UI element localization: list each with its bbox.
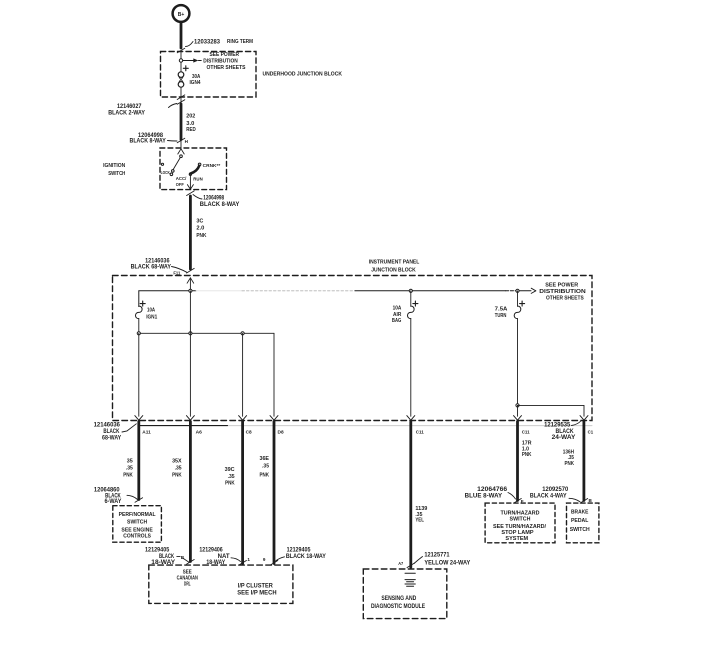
wire to A11	[138, 333, 140, 416]
connector 12064860 tick	[135, 498, 143, 503]
svg-text:SEE I/P MECH: SEE I/P MECH	[237, 590, 276, 596]
svg-text:SWITCH: SWITCH	[510, 517, 531, 523]
svg-text:2.0: 2.0	[196, 226, 204, 232]
wire 39C .35 PNK to cluster	[241, 422, 244, 564]
svg-text:A11: A11	[142, 430, 151, 435]
wire to D8	[273, 333, 275, 416]
connector 12064998 tick below switch	[187, 191, 195, 196]
svg-text:NAT: NAT	[218, 554, 230, 560]
wire 35 .35 PNK to perf/normal switch	[137, 422, 140, 500]
junction node F11/bus	[189, 289, 192, 292]
svg-text:PNK: PNK	[565, 461, 575, 467]
svg-text:68-WAY: 68-WAY	[102, 435, 121, 441]
svg-text:7.5A: 7.5A	[495, 306, 508, 312]
svg-text:35X: 35X	[172, 458, 182, 464]
wire 136H .35 PNK to brake pedal switch	[583, 422, 586, 501]
leader to ring term label	[186, 42, 194, 47]
junction node turn branch	[516, 289, 519, 292]
fuse 10A IGN1	[140, 303, 145, 305]
svg-text:.35: .35	[228, 474, 235, 480]
leader to 12129406 label	[231, 558, 241, 562]
svg-text:C11: C11	[522, 430, 530, 435]
connector 12064998 tick at pin H	[177, 138, 185, 143]
contact RUN	[189, 173, 191, 175]
connector 12146036 tick at F11	[187, 268, 195, 273]
leader to 12146027 label	[169, 104, 177, 108]
fuse 10A AIR BAG	[410, 291, 412, 306]
svg-text:BLACK: BLACK	[159, 554, 175, 560]
svg-text:12129535: 12129535	[544, 423, 571, 429]
svg-text:TURN/HAZARD: TURN/HAZARD	[500, 510, 539, 516]
svg-text:IGN4: IGN4	[190, 80, 201, 86]
svg-text:BLACK: BLACK	[556, 429, 575, 435]
svg-text:12129405: 12129405	[287, 548, 311, 554]
tick at box bottom	[177, 95, 185, 100]
svg-text:12125771: 12125771	[424, 552, 450, 558]
I/P cluster box	[149, 565, 293, 603]
svg-text:C11: C11	[416, 430, 424, 435]
wire 202 3.0 RED	[180, 104, 183, 140]
svg-text:A7: A7	[398, 561, 403, 566]
wire node to fuse 30A	[180, 62, 182, 71]
svg-text:12146027: 12146027	[117, 104, 142, 110]
turn/hazard switch box	[485, 503, 555, 543]
leader to 12064998 label	[168, 140, 178, 143]
svg-text:1: 1	[247, 557, 250, 562]
svg-text:PNK: PNK	[196, 233, 206, 239]
connector 12092570 tick	[580, 499, 588, 504]
svg-text:DISTRIBUTION: DISTRIBUTION	[203, 59, 238, 65]
svg-text:BRAKE: BRAKE	[571, 510, 589, 516]
underhood junction block	[161, 52, 257, 98]
svg-text:C8: C8	[246, 430, 253, 435]
svg-text:IGNITION: IGNITION	[103, 163, 125, 169]
svg-text:CONTROLS: CONTROLS	[123, 534, 151, 540]
ignition switch box	[160, 148, 227, 190]
connector bar (faint)	[139, 425, 592, 427]
svg-text:DRL: DRL	[184, 581, 191, 587]
leader to 12064860 label	[127, 495, 138, 499]
battery terminal B+	[173, 5, 190, 22]
svg-text:.35: .35	[126, 466, 133, 472]
svg-text:12129406: 12129406	[199, 548, 223, 554]
instrument panel junction block box	[113, 276, 593, 421]
leader to A6 wire	[183, 558, 189, 562]
connector 12125771 tick	[407, 563, 415, 568]
svg-text:35: 35	[127, 458, 133, 464]
svg-text:36E: 36E	[260, 456, 270, 462]
arrow to power distribution	[193, 58, 198, 62]
switch blade RUN to CRNK	[190, 166, 199, 174]
svg-text:12033283: 12033283	[194, 40, 221, 46]
svg-text:12092570: 12092570	[542, 487, 569, 493]
svg-text:OTHER SHEETS: OTHER SHEETS	[207, 65, 247, 71]
svg-text:202: 202	[186, 114, 195, 120]
svg-text:SWITCH: SWITCH	[108, 171, 125, 177]
svg-text:DIAGNOSTIC MODULE: DIAGNOSTIC MODULE	[371, 604, 425, 610]
svg-text:SWITCH: SWITCH	[570, 527, 590, 533]
svg-text:.35: .35	[262, 464, 269, 470]
svg-text:PNK: PNK	[260, 473, 270, 479]
leader to C1 wire	[572, 421, 581, 426]
wire fuse to connector 12146027	[180, 87, 182, 104]
junction node A6	[189, 332, 192, 335]
leader to 12064766 label	[508, 493, 516, 500]
leader to 12146036 label	[172, 267, 187, 273]
svg-text:PNK: PNK	[123, 472, 133, 478]
wire RUN contact to box bottom	[189, 176, 191, 189]
svg-text:C1: C1	[588, 430, 594, 435]
svg-text:10A: 10A	[393, 306, 402, 312]
wire node to arrow	[183, 60, 194, 62]
wire into node B+	[180, 52, 182, 59]
node B+ in underhood junction block	[179, 59, 182, 62]
connector 12033283 tick	[177, 48, 185, 53]
svg-text:BLACK 68-WAY: BLACK 68-WAY	[131, 265, 171, 271]
connector 12129406 tick	[239, 561, 247, 566]
sensing and diagnostic module box	[363, 569, 447, 619]
svg-text:D8: D8	[278, 430, 285, 435]
fuse 30A IGN4 maxifuse	[183, 67, 188, 69]
svg-text:BAG: BAG	[392, 318, 401, 324]
svg-text:BLACK 18-WAY: BLACK 18-WAY	[286, 554, 326, 560]
contact CRNK	[198, 163, 201, 166]
junction node A11	[137, 332, 140, 335]
svg-text:PNK: PNK	[225, 480, 235, 486]
connector 12129405 tick right	[270, 561, 278, 566]
svg-text:ACC/: ACC/	[176, 176, 187, 181]
sub-bus	[139, 332, 274, 334]
contact ACC/OFF	[170, 173, 173, 176]
entry arrow at F11	[187, 278, 190, 283]
svg-text:LOCK: LOCK	[161, 170, 171, 175]
svg-text:B+: B+	[178, 12, 185, 18]
svg-text:SENSING AND: SENSING AND	[381, 596, 416, 602]
svg-text:RUN: RUN	[193, 177, 203, 182]
wire 36E .35 PNK to cluster	[273, 422, 276, 564]
svg-text:A6: A6	[196, 430, 203, 435]
svg-text:DISTRIBUTION: DISTRIBUTION	[539, 289, 586, 295]
svg-text:IGN1: IGN1	[146, 314, 157, 320]
svg-text:OFF: OFF	[176, 182, 184, 187]
svg-text:BLACK 8-WAY: BLACK 8-WAY	[200, 202, 240, 208]
svg-text:INSTRUMENT PANEL: INSTRUMENT PANEL	[369, 259, 420, 265]
svg-text:12146036: 12146036	[94, 423, 121, 429]
leader to 12129405 right label	[276, 557, 285, 561]
svg-text:6-WAY: 6-WAY	[105, 499, 122, 505]
contact LOCK	[161, 163, 163, 165]
svg-text:SEE POWER: SEE POWER	[545, 282, 578, 288]
svg-text:PNK: PNK	[522, 452, 532, 458]
connector 12146027 tick	[177, 100, 185, 105]
bus B+ in junction block	[139, 291, 196, 307]
svg-text:YEL: YEL	[415, 518, 424, 524]
svg-text:CRNK**: CRNK**	[203, 163, 221, 168]
svg-text:BLACK 4-WAY: BLACK 4-WAY	[530, 494, 567, 500]
connector bar dark segment	[139, 425, 228, 427]
leader dash to 12129405 label	[177, 556, 180, 558]
wire 3C 2.0 PNK	[189, 196, 192, 269]
svg-text:PNK: PNK	[172, 472, 182, 478]
leader to 12064998 bottom label	[193, 195, 202, 200]
svg-text:.35: .35	[175, 466, 182, 472]
switch blade to LOCK region	[173, 158, 180, 170]
svg-text:39C: 39C	[225, 467, 235, 473]
svg-text:SWITCH: SWITCH	[127, 519, 147, 525]
svg-text:3C: 3C	[196, 218, 203, 224]
svg-text:10A: 10A	[147, 308, 155, 314]
wire to C8	[242, 333, 244, 416]
fuse 7.5A TURN	[517, 291, 519, 306]
exit arrows at junction block bottom	[135, 416, 139, 421]
svg-text:BLACK 8-WAY: BLACK 8-WAY	[130, 139, 166, 145]
svg-text:PEDAL: PEDAL	[571, 518, 589, 524]
brake pedal switch box	[567, 503, 599, 543]
leader to 12125771 label	[414, 557, 423, 564]
svg-text:RED: RED	[186, 127, 196, 133]
wire B+ terminal to underhood junction block	[180, 23, 183, 48]
svg-text:UNDERHOOD JUNCTION BLOCK: UNDERHOOD JUNCTION BLOCK	[263, 72, 343, 78]
svg-text:TURN: TURN	[495, 313, 507, 319]
connector 12064766 tick	[514, 499, 522, 504]
svg-text:12064998: 12064998	[203, 196, 225, 202]
ignition switch internals	[180, 140, 182, 149]
svg-text:I/P CLUSTER: I/P CLUSTER	[238, 583, 274, 589]
SDM inflator symbol	[405, 572, 415, 574]
svg-text:YELLOW 24-WAY: YELLOW 24-WAY	[424, 561, 470, 567]
svg-text:BLACK: BLACK	[103, 429, 120, 435]
svg-text:SEE POWER: SEE POWER	[210, 52, 240, 58]
wire 1139 .35 YEL to SDM	[409, 422, 412, 568]
svg-text:BLACK 2-WAY: BLACK 2-WAY	[108, 110, 145, 116]
svg-text:JUNCTION BLOCK: JUNCTION BLOCK	[371, 268, 416, 274]
svg-text:24-WAY: 24-WAY	[552, 435, 576, 441]
svg-text:RING TERM: RING TERM	[227, 39, 253, 45]
svg-text:OTHER SHEETS: OTHER SHEETS	[546, 296, 584, 302]
svg-text:F11: F11	[173, 270, 180, 275]
svg-text:3.0: 3.0	[186, 121, 194, 127]
wire branch to C1	[518, 405, 585, 416]
leader to A11 wire	[122, 424, 136, 432]
svg-text:PERF/NORMAL: PERF/NORMAL	[119, 512, 157, 518]
junction node turn lower	[516, 404, 519, 407]
junction node air bag branch	[409, 289, 412, 292]
wire 17R 1.0 PNK to turn/hazard switch	[516, 422, 519, 501]
wire to A6	[189, 291, 191, 417]
arrow to power distribution other sheets	[531, 288, 536, 291]
connector 12129405 tick	[187, 560, 195, 565]
svg-text:12129405: 12129405	[145, 548, 170, 554]
perf/normal switch box	[113, 506, 162, 543]
svg-text:9: 9	[263, 557, 266, 562]
wire IGN1 fuse to sub-bus	[138, 319, 140, 334]
svg-text:BLUE 8-WAY: BLUE 8-WAY	[465, 494, 502, 500]
svg-text:SYSTEM: SYSTEM	[505, 536, 528, 542]
leader to 12092570 label	[569, 498, 580, 502]
svg-text:12064766: 12064766	[477, 487, 508, 493]
svg-text:AIR: AIR	[393, 312, 402, 318]
junction node C8	[241, 332, 244, 335]
wire 35X .35 PNK to cluster	[189, 422, 192, 562]
